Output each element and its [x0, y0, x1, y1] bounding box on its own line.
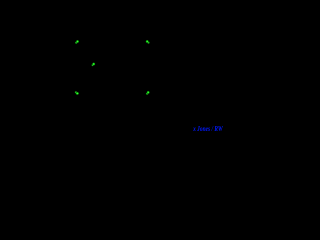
green FISH signal doublet A (upper-left)	[75, 40, 80, 45]
green FISH signal doublet B (upper-right)	[145, 40, 150, 44]
green FISH signal doublet D (lower-left)	[74, 91, 79, 95]
green FISH signal doublet E (lower-right)	[146, 91, 150, 96]
green FISH signal doublet C (center)	[91, 62, 95, 66]
svg-text:x Jones / RW: x Jones / RW	[192, 125, 223, 133]
